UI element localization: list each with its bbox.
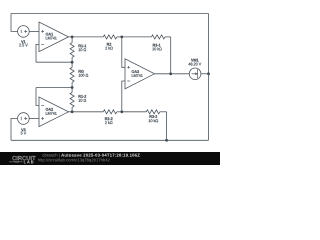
op-amp OA1 bbox=[39, 22, 69, 52]
label V3 value 5 V bbox=[21, 132, 26, 135]
label R2 name bbox=[107, 43, 111, 46]
label R3-2 name bbox=[150, 115, 158, 118]
wire OA3 output to VM1 bbox=[155, 73, 190, 75]
logo wire squiggle bbox=[9, 161, 23, 163]
wire V1 to OA1 + input bbox=[29, 30, 39, 32]
wire bottom rail bbox=[11, 139, 209, 141]
wire R2 node down to OA3 + input bbox=[122, 37, 125, 67]
node R1-1 / RG / OA1 feedback bbox=[71, 61, 74, 64]
wire V1 left lead to top-left corner bbox=[11, 14, 18, 32]
resistor R1-1 bbox=[71, 37, 73, 43]
resistor RG bbox=[71, 62, 73, 67]
wire OA2 output bbox=[69, 111, 104, 113]
label OA3 value LM741 bbox=[132, 74, 143, 77]
resistor R1-2 bbox=[71, 88, 73, 93]
node R3-2 / bottom rail bbox=[165, 139, 168, 142]
node R3-1 / OA3 output bbox=[169, 72, 172, 75]
label R3-1 value 10 kΩ bbox=[152, 47, 161, 50]
footer bar bbox=[0, 152, 220, 165]
wire R3-1 down to OA3 output node bbox=[170, 37, 172, 74]
node OA2 output / R1-2 bottom bbox=[71, 110, 74, 113]
logo CIRCUIT bbox=[12, 156, 35, 160]
wire OA2 inverting input feedback bbox=[36, 88, 39, 106]
node OA1 output / R1-1 top bbox=[71, 36, 74, 39]
node R2 / R3-1 / OA3 + input bbox=[120, 36, 123, 39]
wire V3 to OA2 + input bbox=[29, 118, 39, 120]
label V1 value 2.5 V bbox=[19, 44, 27, 47]
label RG value 100 Ω bbox=[79, 74, 89, 77]
label R2-2 value 2 kΩ bbox=[105, 121, 112, 124]
node VM1 / right rail bbox=[207, 72, 210, 75]
voltage source V1 bbox=[18, 26, 30, 38]
label R3-1 name bbox=[153, 44, 161, 47]
label RG name bbox=[79, 70, 84, 73]
label OA1 value LM741 bbox=[46, 37, 57, 40]
label R2-2 name bbox=[105, 117, 113, 120]
footer text line 2: circuit url bbox=[38, 158, 110, 162]
wire bottom-left corner up to V3 left lead bbox=[11, 119, 18, 141]
op-amp OA2 bbox=[39, 97, 69, 127]
resistor R3-1 bbox=[122, 36, 152, 38]
label OA2 value LM741 bbox=[46, 112, 57, 115]
label R2 value 2 kΩ bbox=[105, 47, 112, 50]
label OA1 name bbox=[46, 33, 53, 36]
resistor R2-2 bbox=[103, 110, 117, 114]
label VM1 value 48.20 V bbox=[188, 63, 201, 66]
resistor R3-2 bbox=[122, 111, 146, 113]
node R2-2 / R3-2 / OA3 - input bbox=[120, 110, 123, 113]
label R3-2 value 10 kΩ bbox=[149, 119, 158, 122]
op-amp OA3 bbox=[125, 59, 155, 89]
wire right rail bbox=[208, 14, 210, 141]
label OA2 name bbox=[46, 108, 53, 111]
label VM1 name bbox=[191, 59, 199, 62]
label R1-1 value 10 Ω bbox=[79, 48, 87, 51]
wire top rail bbox=[11, 13, 209, 15]
label R1-2 name bbox=[79, 95, 87, 98]
footer text line 1: user and autosave name bbox=[42, 153, 59, 157]
logo LAB bbox=[24, 161, 34, 164]
wire R3-2 down to bottom rail bbox=[166, 112, 168, 141]
voltmeter VM1 bbox=[189, 68, 201, 80]
wire R2-2 node up to OA3 - input bbox=[122, 81, 125, 112]
wire OA1 output bbox=[69, 36, 104, 38]
wire OA2 feedback row bbox=[36, 87, 72, 89]
label R1-2 value 10 Ω bbox=[79, 99, 87, 102]
label R1-1 name bbox=[79, 44, 87, 47]
wire VM1 to right rail bbox=[201, 73, 209, 75]
label V1 name bbox=[21, 40, 25, 43]
wire OA1 inverting input feedback bbox=[36, 44, 39, 62]
label OA3 name bbox=[132, 70, 139, 73]
resistor R2 bbox=[103, 35, 117, 39]
wire OA1 feedback row bbox=[36, 61, 72, 63]
voltage source V3 bbox=[18, 113, 30, 125]
label V3 name bbox=[21, 128, 25, 131]
node RG / R1-2 / OA2 feedback bbox=[71, 86, 74, 89]
